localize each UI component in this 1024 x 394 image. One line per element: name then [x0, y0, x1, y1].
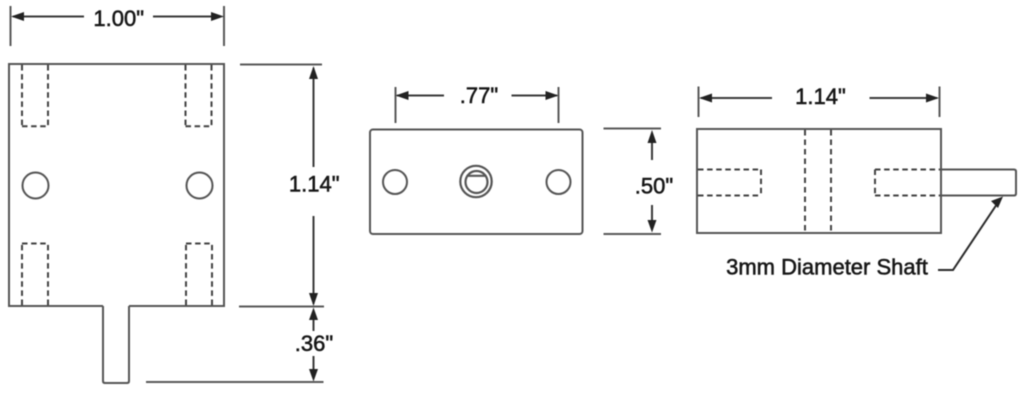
svg-text:1.14": 1.14" — [289, 172, 340, 197]
mounting hole right — [187, 173, 213, 199]
dimension 1.14 right: line with arrows — [699, 94, 939, 103]
hidden slot bottom-left — [22, 244, 48, 306]
mounting hole left — [23, 173, 49, 199]
hidden shaft right (side view) — [875, 170, 940, 196]
dimension .36 lower arrow — [309, 356, 318, 382]
svg-text:1.14": 1.14" — [795, 84, 846, 109]
svg-text:.77": .77" — [460, 83, 498, 108]
dimension 1.14 extension line top — [240, 64, 322, 66]
hidden slot bottom-right — [186, 244, 212, 306]
dimension .77 extension line left — [395, 87, 397, 123]
dimension 1.14 right: extension line left — [698, 87, 700, 118]
svg-text:.50": .50" — [635, 174, 673, 199]
dimension .36 extension line bottom — [146, 381, 324, 383]
svg-text:.36": .36" — [295, 331, 333, 356]
svg-text:3mm Diameter Shaft: 3mm Diameter Shaft — [726, 255, 928, 280]
dimension .36 upper arrow — [309, 308, 318, 332]
output shaft side view — [941, 170, 1016, 196]
dimension 1.00 line with arrows — [11, 12, 224, 21]
hidden slot left (side view) — [698, 170, 761, 196]
top view hole right — [547, 170, 571, 194]
body side view — [697, 129, 941, 233]
dimension 1.14 extension line bottom — [239, 306, 324, 308]
center boss outer circle — [460, 166, 491, 197]
top view hole left — [383, 170, 407, 194]
dimension 1.14 right: extension line right — [939, 87, 941, 118]
dimension .50 extension line top — [604, 128, 662, 130]
dimension .50 line with arrows — [648, 130, 657, 233]
hidden slot top-right — [186, 65, 212, 126]
dimension .77 extension line right — [558, 87, 560, 123]
shaft flat chord — [467, 175, 487, 177]
svg-text:1.00": 1.00" — [93, 6, 144, 31]
hidden slot top-left — [22, 65, 48, 126]
dimension .77 line with arrows — [396, 91, 559, 100]
dimension .50 extension line bottom — [604, 233, 662, 235]
center shaft hole inner circle — [466, 171, 488, 193]
body top view — [370, 130, 583, 235]
body front view — [9, 64, 224, 306]
dimension 1.00 extension line left — [10, 6, 12, 46]
dimension 1.00 extension line right — [223, 6, 225, 46]
leader line to shaft — [938, 197, 1003, 271]
hidden center hole lines — [805, 130, 831, 232]
dimension 1.14 line with arrows — [309, 66, 318, 306]
mounting shaft front view — [103, 306, 129, 383]
